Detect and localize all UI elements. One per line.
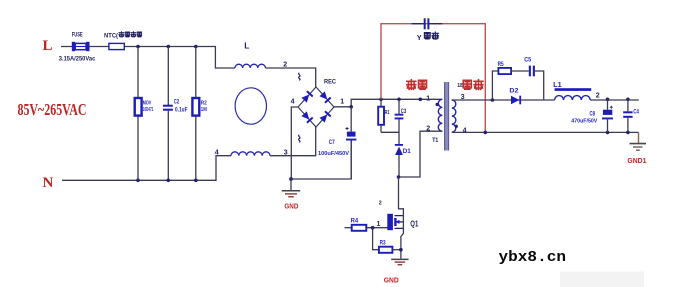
svg-text:2: 2 [283, 61, 287, 68]
svg-text:R4: R4 [351, 219, 359, 225]
svg-text:2: 2 [379, 201, 382, 207]
varistor MOV branch wire [137, 47, 139, 181]
svg-text:L: L [43, 38, 53, 54]
svg-text:R2: R2 [201, 100, 207, 106]
svg-text:MOV: MOV [143, 100, 152, 106]
transformer T1 core [444, 82, 449, 151]
resistor R3 [379, 247, 393, 253]
svg-text:C8: C8 [590, 111, 596, 117]
svg-text:R1: R1 [385, 110, 390, 116]
wire choke top to bridge [265, 68, 315, 87]
svg-text:R3: R3 [380, 241, 387, 247]
junction dot ground rail [289, 177, 293, 181]
ground GND1 [627, 132, 646, 164]
svg-text:T1: T1 [432, 138, 439, 144]
junction dot N/MOV [136, 179, 140, 183]
junction dot R1 top [379, 98, 383, 102]
bridge diode upper-right [319, 91, 331, 103]
wire primary pin2 [399, 131, 443, 177]
wire R4 gate input [345, 227, 352, 229]
choke core ellipse [235, 88, 266, 124]
wire R3 to source [392, 249, 401, 251]
junction dot C3 top [397, 98, 401, 102]
capacitor C8 [602, 99, 613, 132]
svg-text:100uF/450V: 100uF/450V [318, 151, 349, 157]
wire Y-cap red loop [381, 24, 485, 133]
wire bridge negative to ground rail [291, 107, 298, 179]
transformer secondary winding [452, 100, 456, 132]
svg-text:NTC(: NTC( [104, 32, 119, 39]
junction dot source/R3 [399, 248, 403, 252]
wire snubber bottom [381, 132, 399, 144]
junction dot L/MOV [136, 45, 140, 49]
inductor L1 winding [555, 96, 591, 100]
AC mark top [299, 73, 301, 80]
capacitor CY leads [412, 23, 443, 25]
svg-text:1: 1 [377, 221, 381, 228]
svg-text:GND1: GND1 [627, 156, 646, 165]
svg-text:C2: C2 [174, 100, 180, 106]
junction dot C8 top [606, 98, 610, 102]
capacitor C3 [395, 99, 404, 132]
junction dot red loop to ground rail [484, 131, 488, 135]
bridge diode lower-right [319, 111, 331, 123]
svg-text:C3: C3 [401, 109, 407, 115]
svg-text:2: 2 [426, 126, 430, 133]
capacitor CY plates [424, 18, 430, 29]
inductor L common-mode choke top winding [235, 64, 265, 68]
svg-text:L: L [244, 41, 249, 51]
transformer primary polarity dot [436, 103, 439, 106]
capacitor C2 plates [163, 105, 173, 111]
ground GND source [384, 259, 409, 284]
inductor choke bottom winding [231, 152, 270, 156]
svg-text:GND: GND [284, 201, 298, 210]
label secondary 次级 [463, 80, 483, 90]
inductor L1 core bar [555, 88, 592, 91]
junction dot L/R2 [194, 45, 198, 49]
transistor Q1 [387, 214, 403, 259]
junction dot drain [397, 175, 401, 179]
svg-text:C7: C7 [329, 139, 335, 146]
wire C5 to cathode node [535, 71, 544, 100]
svg-text:4: 4 [463, 128, 467, 135]
wire secondary pin3 out [452, 99, 544, 101]
svg-text:FUSE: FUSE [72, 32, 83, 39]
wire gate node to R3 [373, 228, 379, 250]
svg-text:C4: C4 [633, 109, 639, 115]
junction dot C7 top [349, 105, 353, 109]
svg-text:N: N [43, 175, 54, 191]
wire drain [399, 177, 404, 216]
svg-text:Q1: Q1 [410, 219, 418, 228]
wire bridge positive DC bus [334, 99, 442, 107]
junction dot primary pin1 [419, 98, 423, 102]
junction dot C4 bottom [626, 131, 630, 135]
junction dot L/C2 [167, 45, 171, 49]
varistor MOV body [135, 98, 142, 116]
bridge diode upper-left [301, 91, 313, 103]
wire R4 to gate [366, 227, 387, 229]
svg-text:0.1uF: 0.1uF [175, 108, 188, 114]
wire N input rail [62, 156, 231, 181]
svg-text:ybx8.cn: ybx8.cn [499, 250, 567, 266]
svg-text:Y: Y [417, 33, 422, 42]
label primary 初级 [407, 80, 427, 90]
thermistor NTC [109, 43, 124, 49]
AC mark bottom [299, 135, 301, 142]
wire L input rail [61, 47, 235, 69]
transformer T1 primary winding [438, 99, 442, 131]
ground GND primary [282, 179, 301, 210]
svg-text:2: 2 [596, 92, 600, 99]
svg-text:4: 4 [215, 150, 219, 157]
junction dot D2 anode [491, 98, 495, 102]
capacitor C5 [529, 66, 535, 77]
label NTC(热敏电阻 [104, 32, 142, 40]
wire R5 to C5 [511, 70, 529, 72]
capacitor C2 branch wire bottom [167, 111, 169, 181]
resistor R5 [498, 68, 511, 74]
svg-text:L1: L1 [553, 82, 562, 89]
resistor R4 [352, 225, 367, 231]
svg-text:C5: C5 [524, 58, 532, 64]
bridge rectifier REC frame [298, 87, 334, 127]
junction dot N/C2 [167, 179, 171, 183]
wire choke bottom to bridge [270, 127, 316, 156]
svg-text:D1: D1 [403, 148, 411, 155]
svg-text:470uF/50V: 470uF/50V [571, 119, 597, 125]
capacitor C7 [346, 107, 357, 179]
junction dot C4 top [626, 98, 630, 102]
svg-text:D2: D2 [509, 88, 518, 95]
resistor R2 branch wire [195, 47, 197, 181]
svg-text:GND: GND [384, 276, 399, 285]
svg-text:REC: REC [324, 79, 336, 86]
svg-text:R5: R5 [498, 62, 505, 68]
label Y电容 [417, 32, 439, 42]
resistor R2 body [192, 98, 199, 116]
transformer secondary polarity dot [455, 125, 458, 128]
svg-text:1: 1 [426, 96, 430, 103]
junction dot C8 bottom [606, 131, 610, 135]
bridge diode lower-left [301, 111, 313, 123]
watermark strip bottom right [560, 272, 644, 287]
wire secondary pin4 output ground rail [452, 131, 639, 133]
wire DC minus rail to C7 [291, 141, 351, 180]
junction dot N/R2 [194, 179, 198, 183]
svg-text:10D471: 10D471 [143, 107, 154, 113]
svg-text:4: 4 [291, 99, 295, 106]
junction dot gate node [371, 226, 375, 230]
capacitor C2 branch wire top [167, 47, 169, 106]
svg-text:85V~265VAC: 85V~265VAC [18, 100, 87, 119]
svg-text:1M: 1M [201, 107, 207, 113]
resistor R1 [378, 99, 384, 132]
svg-text:3.15A/250Vac: 3.15A/250Vac [59, 55, 96, 62]
fuse F1 [72, 42, 90, 51]
svg-text:1: 1 [340, 99, 344, 106]
diode D2 [511, 96, 521, 105]
capacitor C4 [623, 99, 632, 132]
diode D1 [395, 144, 403, 177]
svg-text:3: 3 [284, 150, 288, 157]
wire RC snubber up [492, 71, 498, 100]
